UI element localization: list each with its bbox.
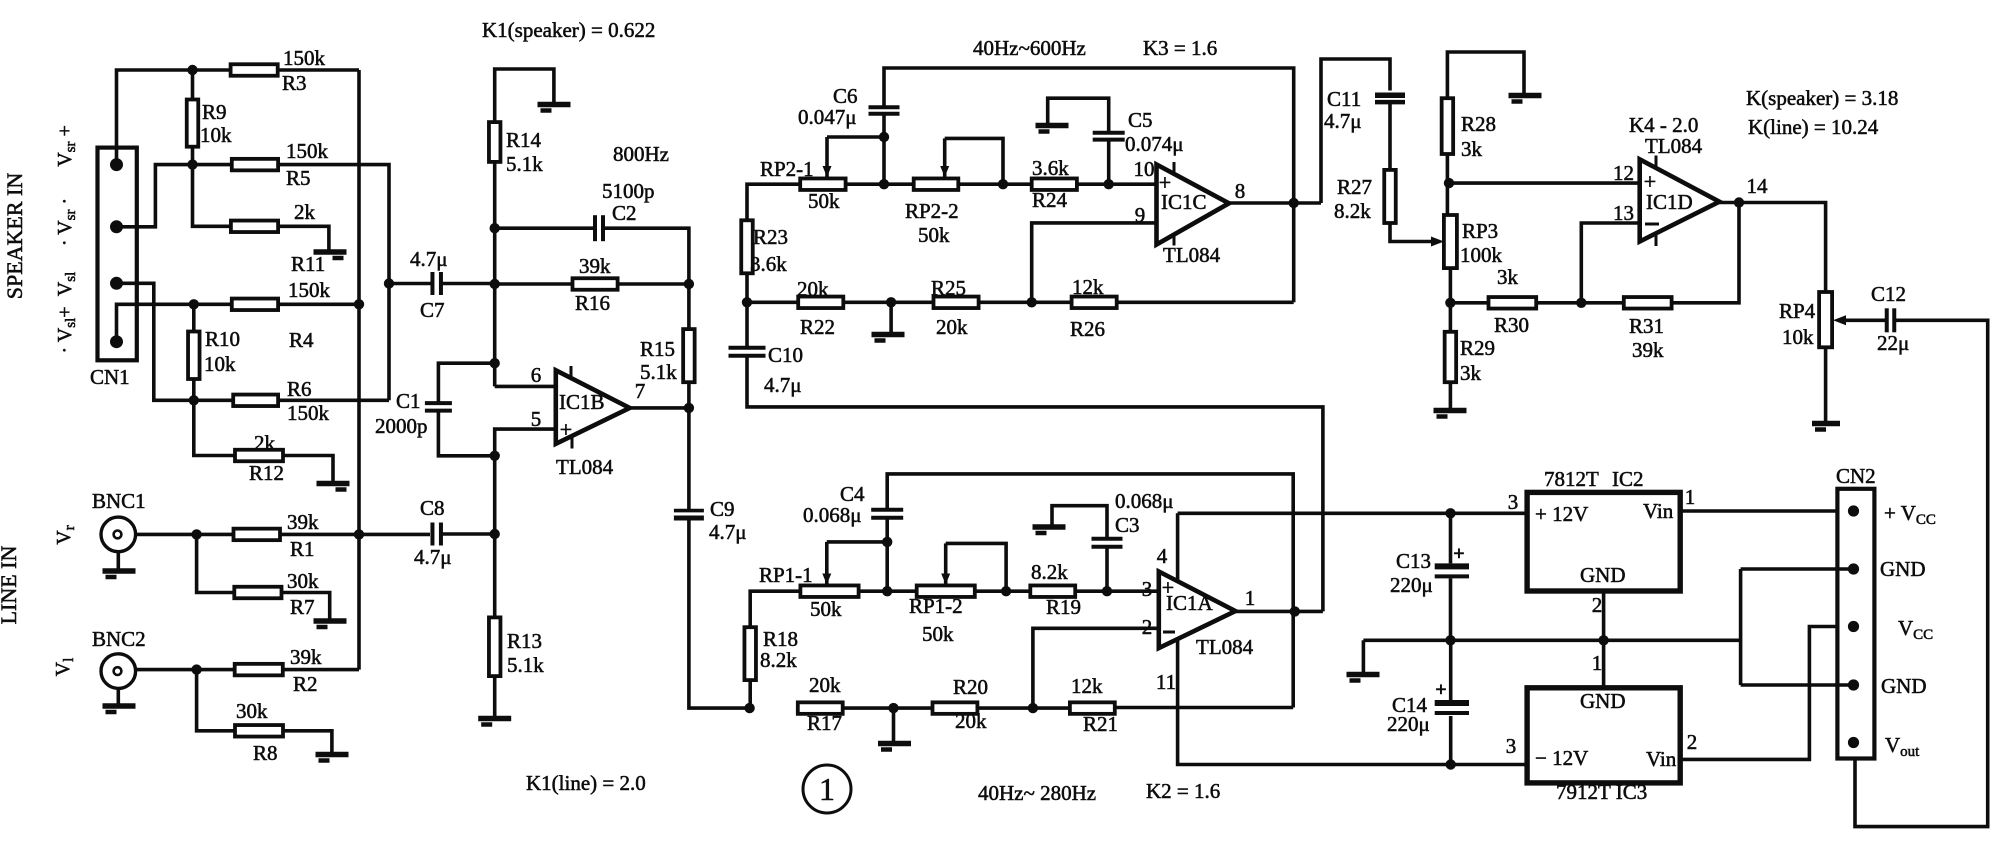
wire IC1D pin13 [1581,223,1639,303]
svg-text:TL084: TL084 [1645,134,1703,158]
svg-text:IC2: IC2 [1612,467,1644,491]
svg-text:R6: R6 [287,377,312,401]
svg-text:R19: R19 [1046,595,1081,619]
junction IC1C output [1289,198,1299,208]
wire R1 row to C8 [359,533,430,537]
resistor R27 [1384,170,1396,223]
resistor R13 [489,617,501,676]
svg-text:TL084: TL084 [1196,635,1254,659]
wire CN1 pin3 to R6 row [117,283,234,400]
ground at R11 [314,249,347,255]
svg-text:7912T IC3: 7912T IC3 [1556,780,1647,804]
resistor R6 [233,395,278,407]
resistor R29 [1445,332,1457,382]
junction IC1D output [1734,197,1744,207]
svg-text:0.074μ: 0.074μ [1125,132,1184,156]
wire mid rail ground stub [1362,640,1366,672]
junction pin9 node [1027,297,1037,307]
wire R21 to feedback riser [1115,706,1293,710]
wire R22 to R25 [843,300,933,304]
wire R7 to ground [282,593,330,620]
svg-text:R20: R20 [953,675,988,699]
svg-text:R29: R29 [1460,336,1495,360]
wire CN1 pin4 to R4 row [117,304,232,341]
svg-text:R28: R28 [1461,112,1496,136]
svg-text:K2 = 1.6: K2 = 1.6 [1146,779,1220,803]
svg-text:20k: 20k [936,315,968,339]
junction R10 bottom [189,395,199,405]
figure number 1 [803,765,851,813]
wire R29 to ground [1449,382,1453,408]
capacitor C6 [869,105,900,109]
svg-text:R27: R27 [1337,175,1372,199]
svg-text:+: + [1435,679,1446,701]
resistor R14 [489,122,501,162]
junction RP2-1 row node [879,179,889,189]
op-amp IC1B [556,370,630,444]
svg-text:20k: 20k [797,277,829,301]
junction C5 bottom node [1104,179,1114,189]
svg-text:C11: C11 [1327,87,1361,111]
svg-text:R21: R21 [1083,712,1118,736]
svg-text:11: 11 [1156,670,1176,694]
junction R15 top [684,279,694,289]
wire R18 top to RP1-1 [750,591,800,627]
svg-text:+: + [560,417,572,442]
wire RP1-1 wiper link [827,540,887,544]
wire C14 bottom [1449,716,1453,765]
junction R10 top [189,299,199,309]
connector BNC1 [101,517,136,552]
svg-text:GND: GND [1881,674,1927,698]
junction C13 bottom [1445,635,1455,645]
wire R25 to R26 [979,300,1072,304]
svg-text:K1(speaker) = 0.622: K1(speaker) = 0.622 [482,18,655,42]
wire R5 to C7 column [278,165,389,401]
wire IC1A output [1235,610,1323,614]
svg-text:C7: C7 [420,298,445,322]
potentiometer RP4 [1819,292,1832,347]
junction GND risers [1598,635,1608,645]
wire C6 bottom [882,114,886,185]
svg-text:0.068μ: 0.068μ [803,503,862,527]
svg-text:C12: C12 [1871,282,1906,306]
wire BNC1 ground stub [117,552,121,569]
wire C5 bottom [1107,140,1111,185]
ground at mid rail [1347,672,1380,678]
wire RP2-1 to RP2-2 [846,182,914,186]
op-amp IC1A [1159,572,1236,649]
svg-text:22μ: 22μ [1877,331,1909,355]
svg-text:R5: R5 [286,166,311,190]
wire R8 to ground [283,731,332,752]
svg-text:10k: 10k [204,352,236,376]
wire CN2 pin2 GND [1741,567,1854,571]
wire IC1C output [1229,201,1321,205]
wire IC2 GND riser [1602,591,1606,688]
wire GND mid rail [1363,638,1740,642]
svg-text:4.7μ: 4.7μ [709,520,747,544]
junction C6 bottom [879,132,889,142]
svg-text:10k: 10k [200,123,232,147]
svg-text:R13: R13 [507,629,542,653]
svg-text:R2: R2 [293,672,318,696]
svg-text:R15: R15 [640,337,675,361]
connector CN1 [98,148,137,361]
wire IC1A pin11 to -12V rail [1178,639,1451,765]
wire R16 left [495,282,573,286]
wire R2 to bus [283,668,359,672]
resistor R19 [1030,585,1075,597]
wire RP1-2 to R19 [975,589,1031,593]
wire IC1D output [1719,203,1825,293]
svg-text:4.7μ: 4.7μ [414,545,452,569]
svg-text:4.7μ: 4.7μ [1324,109,1362,133]
svg-text:CN2: CN2 [1836,464,1876,488]
junction R9 top [187,65,197,75]
svg-text:TL084: TL084 [1163,243,1221,267]
svg-text:BNC2: BNC2 [92,627,146,651]
wire CN1 pin2 to R5 row [117,165,232,227]
potentiometer RP3 wiper arrow [1431,237,1444,247]
capacitor C4 [871,508,903,512]
wire RP1-2 wiper link [946,543,1006,591]
potentiometer RP2-1 [800,178,845,190]
svg-text:1: 1 [1685,485,1696,509]
junction R17 ground node [888,703,898,713]
svg-text:CN1: CN1 [90,365,130,389]
svg-text:4: 4 [1157,544,1168,568]
svg-text:BNC1: BNC1 [92,489,146,513]
wire C7 node to C7 [389,282,433,286]
svg-text:R7: R7 [290,595,315,619]
svg-text:50k: 50k [808,189,840,213]
resistor R31 [1624,297,1672,309]
svg-text:GND: GND [1880,557,1926,581]
wire C11 to R27 [1388,102,1392,170]
wire IC1B pin6 [495,385,556,389]
svg-text:R10: R10 [205,327,240,351]
svg-text:2: 2 [1592,593,1603,617]
capacitor C1 [425,401,452,405]
svg-text:K3 = 1.6: K3 = 1.6 [1143,36,1217,60]
junction C13 top [1445,508,1455,518]
svg-text:R26: R26 [1070,317,1105,341]
svg-text:5100p: 5100p [602,179,655,203]
svg-text:R30: R30 [1494,313,1529,337]
svg-text:R1: R1 [290,537,315,561]
svg-text:Vin: Vin [1643,499,1674,523]
wire R16 right [618,282,689,286]
svg-text:39k: 39k [287,510,319,534]
wire R4 to bus [278,302,359,306]
wire R23 top to RP2-1 [747,184,800,220]
svg-text:R14: R14 [506,128,542,152]
junction RP1-1 row node [882,586,892,596]
svg-text:3.6k: 3.6k [750,252,787,276]
svg-text:LINE IN: LINE IN [0,545,21,624]
ground at BNC2 [103,703,136,709]
wire R28 top to ground [1447,52,1524,98]
wire C3 top to ground [1052,506,1107,539]
resistor R17 [798,702,843,714]
svg-text:+ 12V: + 12V [1535,502,1588,526]
junction RP2-2 right [998,179,1008,189]
wire R27 to RP3 wiper [1390,223,1432,242]
svg-text:3.6k: 3.6k [1032,156,1069,180]
junction C1 bottom node [490,451,500,461]
svg-text:IC1D: IC1D [1646,190,1693,214]
capacitor C10 [729,346,766,350]
resistor R5 [232,159,278,171]
svg-text:RP2-2: RP2-2 [905,199,959,223]
wire C1 bottom [438,411,494,456]
wire R24 to IC1C pin10 [1077,182,1157,186]
svg-text:39k: 39k [1632,338,1664,362]
connector BNC2 [101,654,136,689]
svg-text:12k: 12k [1071,674,1103,698]
wire C11 jog [1321,59,1390,203]
svg-text:1: 1 [1245,586,1256,610]
resistor R21 [1070,702,1115,714]
wire +12V rail [1178,511,1528,515]
svg-text:8.2k: 8.2k [1334,199,1371,223]
svg-text:220μ: 220μ [1387,712,1430,736]
svg-text:5.1k: 5.1k [507,653,544,677]
svg-text:C3: C3 [1115,513,1140,537]
svg-text:C2: C2 [612,201,637,225]
wire IC1B out to C9 [687,408,691,511]
ground at R14 top [538,102,571,108]
capacitor C7 [430,272,434,295]
ground at R29 [1434,408,1467,414]
svg-text:K(speaker) = 3.18: K(speaker) = 3.18 [1746,86,1898,110]
ground at C3 [1033,524,1066,530]
wire IC1B output [630,406,689,410]
svg-text:IC1A: IC1A [1166,591,1214,615]
svg-text:30k: 30k [236,699,268,723]
potentiometer RP4 wiper [1840,318,1887,322]
svg-text:7: 7 [635,379,646,403]
potentiometer RP2-2 [914,178,959,190]
junction C1 top node [490,358,500,368]
wire C12 to Vout riser [1855,320,1988,826]
svg-text:R22: R22 [800,315,835,339]
svg-text:4.7μ: 4.7μ [410,247,448,271]
svg-text:9: 9 [1135,203,1146,227]
ground at R17 row [878,741,911,747]
wire R14 top to ground [495,69,554,122]
svg-text:14: 14 [1747,174,1769,198]
junction R22 ground node [886,297,896,307]
junction pin2 node [1028,703,1038,713]
svg-text:K(line) = 10.24: K(line) = 10.24 [1748,115,1879,139]
wire R23 bottom [745,273,749,302]
wire R17 to R20 [843,706,933,710]
svg-text:5.1k: 5.1k [506,152,543,176]
resistor R28 [1442,98,1454,154]
capacitor C2 [593,215,597,241]
wire C2 right [603,228,689,329]
wire R3 to bus [278,68,359,72]
wire BNC2 ground stub [117,688,121,704]
svg-text:2000p: 2000p [375,414,428,438]
wire R7 left lead [197,534,235,592]
svg-text:3k: 3k [1461,137,1483,161]
regulator IC3 7912 [1527,688,1680,783]
svg-text:R23: R23 [753,225,788,249]
svg-text:C10: C10 [768,343,803,367]
resistor R9 [187,100,199,147]
resistor R1 [234,529,281,541]
svg-text:3: 3 [1508,490,1519,514]
wire C10 to IC1A output [747,356,1323,612]
wire C4 top to IC1A output [887,474,1293,708]
svg-text:13: 13 [1613,201,1634,225]
regulator IC2 7812 [1527,492,1680,591]
svg-text:2: 2 [1142,615,1153,639]
wire R12 left lead [194,400,235,455]
svg-text:R3: R3 [282,71,307,95]
svg-text:6: 6 [531,363,542,387]
svg-text:R12: R12 [249,461,284,485]
wire R6 to C7 column [278,398,389,402]
capacitor C5 [1093,131,1125,135]
junction R28 RP3 node [1444,178,1454,188]
wire C7 to R14 column [441,282,495,286]
wire R31 to feedback riser [1672,203,1739,303]
junction RP3 bottom node [1445,298,1455,308]
wire RP4 to ground [1824,347,1828,421]
svg-text:RP4: RP4 [1779,299,1816,323]
wire C13 top [1449,513,1453,563]
svg-text:10: 10 [1134,157,1155,181]
svg-text:30k: 30k [287,569,319,593]
capacitor C14 electrolytic [1435,700,1469,706]
svg-text:8.2k: 8.2k [760,648,797,672]
svg-text:0.047μ: 0.047μ [798,105,857,129]
resistor R22 [798,297,843,309]
wire RP2-1 wiper link [827,135,884,139]
svg-text:C9: C9 [710,497,735,521]
svg-text:R31: R31 [1629,314,1664,338]
svg-text:10k: 10k [1782,325,1814,349]
svg-text:IC1B: IC1B [559,390,605,414]
ground at R12 [317,481,350,487]
ground at BNC1 [103,568,136,574]
svg-text:150k: 150k [286,139,329,163]
capacitor C3 [1092,537,1123,541]
resistor R20 [933,702,978,714]
svg-text:12k: 12k [1072,275,1104,299]
svg-text:− 12V: − 12V [1535,746,1588,770]
wire CN2 GND link vertical [1739,569,1743,685]
resistor R25 [934,297,979,309]
wire BNC1 to R1 [136,533,234,537]
wire R8 left lead [197,670,235,731]
svg-text:RP2-1: RP2-1 [760,157,814,181]
resistor R16 [573,278,618,290]
svg-text:C5: C5 [1128,108,1153,132]
capacitor C11 [1375,93,1405,99]
resistor R24 [1032,178,1077,190]
wire C10 top [745,302,749,347]
resistor R23 [741,220,753,273]
svg-text:Vin: Vin [1646,747,1677,771]
wire R15 to output [687,382,691,408]
svg-text:100k: 100k [1460,243,1503,267]
ground at R28 [1509,93,1542,99]
wire CN2 pin4 GND [1741,683,1854,687]
svg-text:12: 12 [1613,161,1634,185]
ground at R22 row [872,332,905,338]
resistor R10 [188,332,200,380]
wire C9 to R17 row [689,518,750,708]
svg-text:GND: GND [1580,563,1626,587]
resistor R15 [683,329,695,382]
junction BNC1 node [191,529,201,539]
wire R30 to R31 [1536,301,1624,305]
junction IC1A output [1290,606,1300,616]
junction C8 node [490,529,500,539]
svg-text:40Hz~ 280Hz: 40Hz~ 280Hz [978,781,1096,805]
junction R9 bottom [187,159,197,169]
wire R26 to IC1C output riser [1117,300,1294,304]
svg-text:C8: C8 [420,496,445,520]
svg-text:40Hz~600Hz: 40Hz~600Hz [973,36,1086,60]
wire ground stub R17 row [892,708,896,741]
svg-text:150k: 150k [288,278,331,302]
svg-text:39k: 39k [290,645,322,669]
capacitor C13 electrolytic [1435,563,1469,569]
resistor R7 [234,587,281,599]
potentiometer RP1-2 [917,585,975,597]
junction IC1B output [684,403,694,413]
junction R23 bottom [742,297,752,307]
svg-text:2k: 2k [254,431,276,455]
svg-text:3k: 3k [1497,265,1519,289]
resistor R26 [1072,297,1117,309]
wire R14 to C2 row [493,162,497,387]
svg-text:RP1-1: RP1-1 [759,563,813,587]
svg-text:5.1k: 5.1k [640,360,677,384]
svg-text:0.068μ: 0.068μ [1115,489,1174,513]
wire R18 bottom [748,680,752,708]
junction bus R1 [354,529,364,539]
op-amp IC1D [1640,159,1720,241]
capacitor C12 [1885,308,1889,332]
connector CN2 [1837,489,1874,759]
svg-text:R25: R25 [931,276,966,300]
svg-text:8.2k: 8.2k [1031,560,1068,584]
svg-text:R8: R8 [253,741,278,765]
svg-text:4.7μ: 4.7μ [764,373,802,397]
wire R11 left lead [193,165,231,227]
wire bus vertical [357,70,361,670]
wire R11 to ground [278,226,329,250]
wire IC2 out to CN2 pin1 [1680,509,1853,513]
wire C2 left [495,226,595,230]
svg-text:R24: R24 [1032,188,1068,212]
svg-text:150k: 150k [287,401,330,425]
resistor R8 [235,725,283,737]
wire RP2-2 to R24 [958,182,1031,186]
potentiometer RP3 [1444,215,1457,268]
wire C8 to pin5 column [441,532,495,536]
resistor R12 [235,450,283,462]
wire IC1A pin4 to +12V rail [1176,513,1180,581]
svg-text:+: + [1453,543,1464,565]
